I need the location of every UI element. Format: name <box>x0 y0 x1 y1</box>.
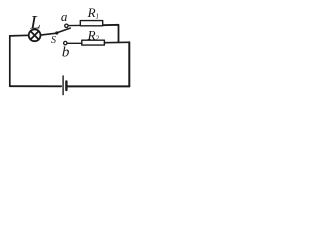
wire R2 to right edge <box>104 41 129 43</box>
switch S pivot <box>55 31 58 34</box>
wire battery to left corner <box>10 85 61 87</box>
terminal b <box>64 41 67 44</box>
wire a to R1 <box>68 24 80 26</box>
svg-text:S: S <box>51 35 56 46</box>
switch S arm <box>57 28 70 33</box>
battery long plate <box>62 76 64 95</box>
terminal a <box>65 24 68 27</box>
svg-text:b: b <box>62 44 70 60</box>
wire R1 to right corner <box>103 25 119 43</box>
resistor R2 <box>82 40 105 45</box>
svg-text:a: a <box>61 9 68 24</box>
lamp L <box>29 29 41 41</box>
svg-text:L: L <box>29 12 41 33</box>
wire bottom right <box>68 85 130 87</box>
wire right vertical <box>128 42 130 86</box>
wire left vertical <box>9 36 11 86</box>
wire b to R2 <box>67 42 82 44</box>
wire top-left horizontal <box>10 34 29 37</box>
wire lamp to switch <box>41 33 56 35</box>
battery short plate <box>65 81 67 90</box>
resistor R1 <box>80 21 102 26</box>
